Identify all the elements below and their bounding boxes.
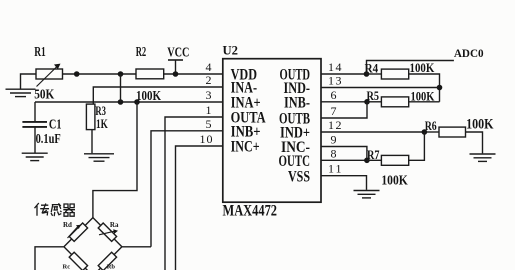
svg-text:ADC0: ADC0 bbox=[454, 48, 484, 60]
wire R6 right to ground bbox=[466, 132, 483, 153]
svg-text:MAX4472: MAX4472 bbox=[223, 203, 278, 220]
pin numbers right bbox=[328, 60, 342, 176]
svg-text:INC+: INC+ bbox=[231, 139, 260, 156]
resistor R1 body bbox=[36, 69, 63, 79]
svg-text:4: 4 bbox=[206, 60, 212, 74]
glyph 传 bbox=[35, 203, 50, 216]
ground for VSS bbox=[354, 190, 380, 192]
wire pin8 OUTC bbox=[321, 159, 367, 161]
svg-text:100K: 100K bbox=[381, 173, 408, 188]
svg-text:6: 6 bbox=[331, 88, 337, 102]
pin numbers left bbox=[200, 60, 213, 146]
node junction on VDD line bbox=[74, 71, 80, 77]
svg-text:1: 1 bbox=[206, 103, 212, 117]
svg-text:14: 14 bbox=[328, 60, 342, 74]
wire to ADC0 bbox=[367, 61, 454, 75]
svg-text:0.1uF: 0.1uF bbox=[36, 131, 61, 146]
wire pin4 VDD line bbox=[63, 73, 223, 75]
svg-text:100K: 100K bbox=[411, 88, 436, 103]
node junction divider to INA+ bbox=[118, 99, 124, 105]
resistor R6 body bbox=[439, 127, 466, 137]
sensor bridge top-left arm Rd bbox=[64, 218, 93, 247]
wire pin7 OUTB up to pin6 node bbox=[321, 102, 367, 118]
svg-text:C1: C1 bbox=[49, 117, 62, 132]
svg-text:Rc: Rc bbox=[63, 263, 71, 270]
IC pin labels left column bbox=[231, 67, 266, 156]
wire R3 bottom to ground bbox=[91, 130, 93, 154]
wire pin13 IND- bbox=[321, 87, 440, 89]
wire pin14 OUTD bbox=[321, 73, 367, 75]
resistor R1 arrow bbox=[37, 67, 58, 87]
ground for C1 bbox=[22, 152, 48, 154]
wire pin10 INC+ bbox=[176, 146, 223, 270]
svg-text:50K: 50K bbox=[34, 88, 54, 103]
op-amp U2 IC body MAX4472 bbox=[223, 59, 321, 203]
wire pin8 node to R7 bbox=[367, 159, 382, 161]
svg-text:100K: 100K bbox=[410, 60, 436, 75]
svg-text:Rb: Rb bbox=[107, 263, 116, 270]
wire pin1 OUTA bbox=[165, 117, 223, 270]
wire pin5 INB+ bbox=[151, 131, 223, 247]
resistor R5 body bbox=[381, 97, 408, 107]
IC pin labels right column bbox=[279, 67, 311, 186]
wire pin12 node to R6 bbox=[424, 131, 439, 133]
svg-text:R2: R2 bbox=[136, 45, 147, 60]
wire bridge right node to pin5 bbox=[122, 246, 151, 248]
svg-text:13: 13 bbox=[328, 74, 342, 88]
VCC symbol bbox=[168, 59, 183, 61]
svg-text:7: 7 bbox=[331, 104, 337, 118]
svg-text:INB-: INB- bbox=[284, 95, 310, 112]
wire pin6 INB- bbox=[321, 101, 367, 103]
svg-text:100K: 100K bbox=[466, 117, 494, 133]
wire INA+ to bridge top bbox=[93, 102, 137, 218]
svg-text:R5: R5 bbox=[367, 88, 380, 103]
svg-text:R6: R6 bbox=[425, 118, 437, 133]
svg-text:9: 9 bbox=[331, 133, 337, 147]
Ra arrow bbox=[99, 231, 115, 235]
Rd arrow bbox=[68, 227, 78, 238]
wire pin6 node to R5 bbox=[367, 101, 381, 103]
wire R5 right bbox=[409, 101, 440, 103]
svg-text:R4: R4 bbox=[365, 61, 379, 76]
wire R4 right down bbox=[409, 74, 440, 102]
svg-text:VCC: VCC bbox=[167, 46, 189, 61]
node junction bridge feed bbox=[134, 99, 140, 105]
ground for R6 bbox=[470, 153, 496, 155]
wire R1 left to ground bbox=[21, 74, 37, 89]
wire pin9 INC- down to pin8 bbox=[321, 147, 367, 161]
wire pin3 INA+ line bbox=[35, 101, 223, 103]
ground for R1 bbox=[6, 88, 36, 90]
wire pin14 node to R4 bbox=[367, 73, 382, 75]
svg-text:100K: 100K bbox=[136, 89, 161, 104]
resistor R2 body bbox=[136, 69, 164, 79]
label sensor 传感器 hand-drawn glyphs bbox=[35, 203, 76, 216]
sensor bridge top-right arm Ra bbox=[93, 218, 122, 247]
svg-text:5: 5 bbox=[206, 117, 212, 131]
wire divider vertical bbox=[120, 74, 122, 102]
svg-text:12: 12 bbox=[328, 118, 342, 132]
sensor bridge bottom-right arm Rb bbox=[93, 247, 122, 270]
resistor R7 body bbox=[381, 155, 408, 165]
glyph 器 bbox=[63, 204, 75, 216]
svg-text:VSS: VSS bbox=[288, 168, 310, 185]
glyph 感 bbox=[51, 203, 62, 216]
svg-text:2: 2 bbox=[206, 73, 212, 87]
ground for R3 bbox=[84, 153, 114, 155]
svg-text:3: 3 bbox=[206, 88, 212, 102]
resistor R3 body bbox=[86, 104, 95, 130]
wire pin11 VSS to ground bbox=[321, 176, 367, 190]
node junction R4/pin13 bbox=[437, 85, 443, 91]
svg-text:8: 8 bbox=[331, 146, 337, 160]
svg-text:Ra: Ra bbox=[110, 221, 119, 229]
wire bridge left node down bbox=[35, 247, 64, 270]
node junction R2 left bbox=[118, 71, 124, 77]
svg-text:11: 11 bbox=[328, 162, 342, 176]
wire pin12 IND+ bbox=[321, 131, 424, 133]
svg-text:R7: R7 bbox=[367, 147, 380, 162]
wire R7 right up to pin12 node bbox=[409, 132, 425, 160]
sensor bridge bottom-left arm Rc bbox=[64, 247, 93, 270]
resistor R4 body bbox=[381, 69, 408, 79]
svg-text:Rd: Rd bbox=[63, 221, 72, 229]
wire pin2 INA- line bbox=[93, 87, 223, 104]
capacitor C1 bbox=[34, 102, 36, 121]
svg-text:1K: 1K bbox=[96, 116, 108, 131]
svg-text:10: 10 bbox=[200, 132, 213, 146]
svg-text:U2: U2 bbox=[223, 43, 239, 58]
svg-text:R1: R1 bbox=[34, 45, 46, 60]
